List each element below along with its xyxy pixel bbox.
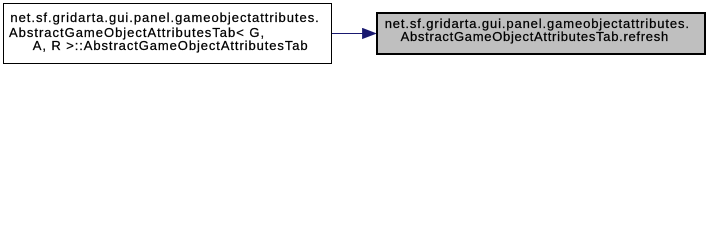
call edge wire — [332, 33, 364, 34]
current node box: AbstractGameObjectAttributesTab.refresh — [376, 12, 706, 55]
caller node label line 2 — [9, 26, 265, 39]
caller node label line 1 — [10, 11, 319, 24]
call edge arrowhead — [362, 28, 377, 40]
current node label line 1 — [385, 17, 690, 30]
caller node box: AbstractGameObjectAttributesTab constructor — [3, 3, 332, 64]
caller node label line 3 — [33, 39, 309, 52]
current node label line 2 — [401, 30, 669, 43]
